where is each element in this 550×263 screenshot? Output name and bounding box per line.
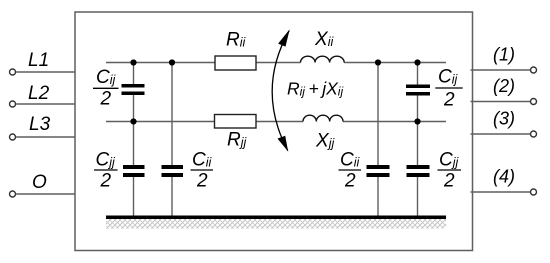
svg-text:2: 2 [100,89,112,110]
wire: vertical V4 upper (x=417.5, rail i to Cij/2) [417,63,419,85]
label Cii/2 right [339,150,362,192]
svg-text:(2): (2) [493,76,515,96]
junction dot rail j / V4 [414,118,420,124]
capacitor Cii/2 right (plates) [367,165,390,169]
terminal L2 [10,83,76,107]
svg-text:Rii: Rii [226,30,247,51]
svg-text:Cjj: Cjj [439,150,460,171]
label Cij/2 right [435,67,462,111]
svg-text:O: O [32,172,47,193]
terminal (2) [471,76,537,105]
wire: vertical V1 upper (x=133.5, rail i to Cij/2) [133,63,135,85]
wire: top rail (line i), right segment [344,62,446,64]
capacitor Cij/2 right (plates) [406,85,430,89]
svg-text:Cii: Cii [340,150,361,171]
capacitor Cjj/2 right (plates) [407,165,430,169]
junction dot rail i / V1 [130,59,136,65]
svg-text:(4): (4) [493,167,515,187]
label Cjj/2 left [94,150,118,192]
svg-text:L1: L1 [28,50,49,71]
svg-text:2: 2 [100,170,112,191]
terminal L3 [10,114,76,140]
wire: vertical V1 mid (Cij/2 to rail j) [133,95,135,122]
svg-text:Cjj: Cjj [96,150,117,171]
label Cii/2 left [191,150,214,192]
svg-text:Xjj: Xjj [315,131,335,152]
junction dot rail j / V1 [130,118,136,124]
terminal (4) [471,167,537,196]
enclosure box [75,12,473,251]
wire: vertical V4 mid (Cij/2 to rail j) [417,95,419,122]
wire: second rail (line j), left segment [106,121,303,123]
junction dot rail i / V3 [375,59,381,65]
svg-text:L2: L2 [28,83,50,104]
junction dot rail i / V4 [414,59,420,65]
inductor Xjj [303,115,343,121]
resistor Rii [215,56,256,70]
svg-text:Xii: Xii [314,29,334,50]
svg-text:Cii: Cii [192,150,213,171]
wire: top rail (line i), left segment [106,62,301,64]
arrowhead top [278,29,290,46]
arrowhead bottom [278,136,289,152]
label Cjj/2 right [438,150,462,192]
ground hatch [106,219,446,229]
svg-text:2: 2 [196,170,208,191]
svg-text:2: 2 [443,170,455,191]
capacitor Cii/2 left (plates) [162,165,184,169]
terminal (3) [471,109,537,138]
junction dot rail i / V2 [169,59,175,65]
mutual coupling arrow (arc) [272,31,289,151]
svg-text:2: 2 [344,170,356,191]
svg-text:Cij: Cij [438,67,459,88]
terminal L1 [10,50,76,75]
terminal O [10,172,76,197]
capacitor Cij/2 left (plates) [122,84,145,88]
svg-text:Rij + jXij: Rij + jXij [287,79,343,99]
wire: second rail (line j), right segment [343,121,446,123]
wire: vertical V1 lower (rail j to Cjj/2 to ground) [133,122,135,166]
label Cij/2 left [93,67,119,110]
resistor Rjj [215,115,257,129]
svg-text:2: 2 [443,90,455,111]
svg-text:(3): (3) [493,109,515,129]
svg-text:L3: L3 [29,114,51,135]
inductor Xii [301,56,345,62]
terminal (1) [471,45,537,74]
svg-text:(1): (1) [493,45,515,65]
capacitor Cjj/2 left (plates) [123,165,145,169]
wire: vertical V4 lower (rail j to Cjj/2 to ground) [417,122,419,166]
wire: vertical V2 (x=172, rail i to Cii/2 to ground) [171,63,173,166]
wire: vertical V3 (x=378, rail i to Cii/2 to ground) [377,63,379,166]
svg-text:Rjj: Rjj [227,130,248,151]
svg-text:Cij: Cij [96,67,117,88]
ground bar [106,216,446,220]
